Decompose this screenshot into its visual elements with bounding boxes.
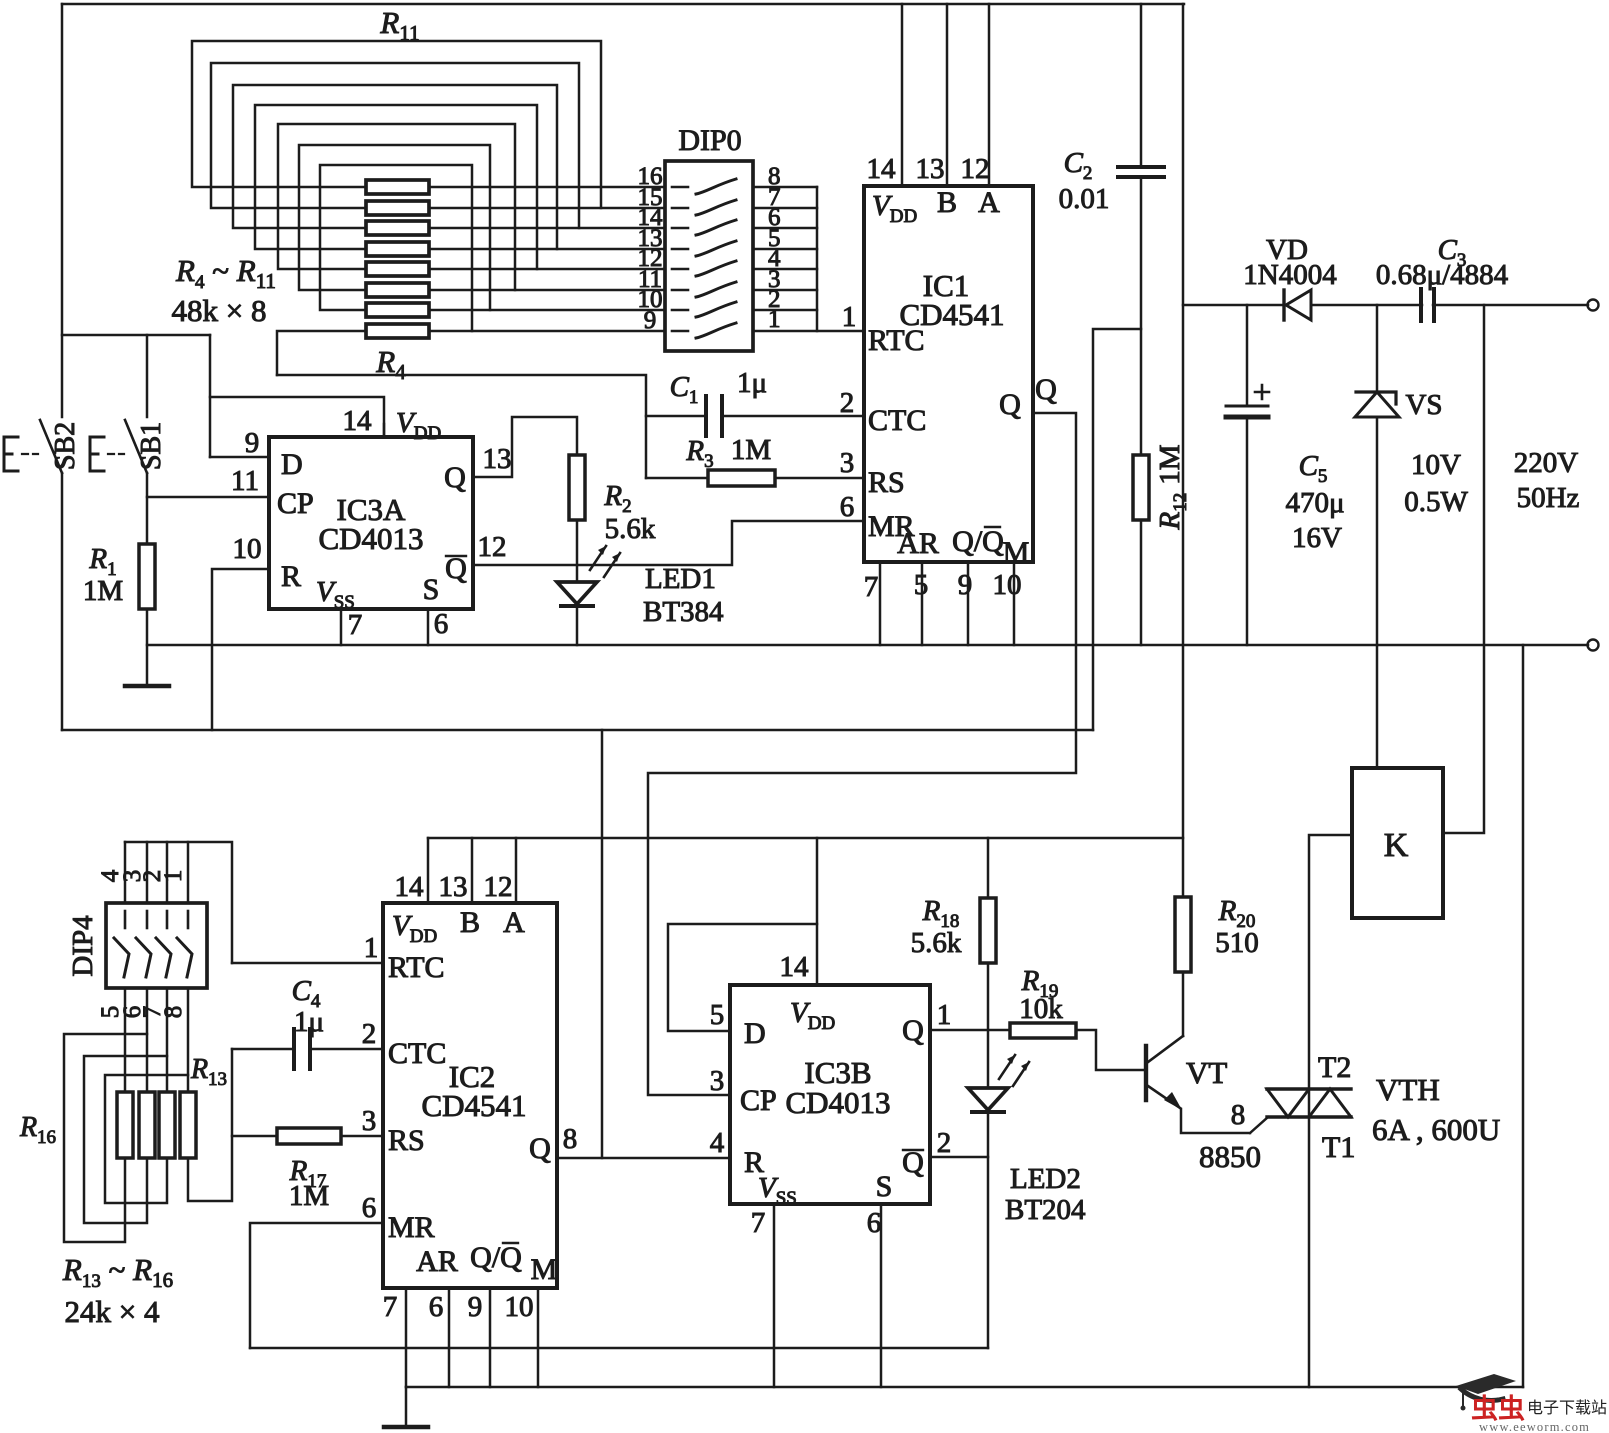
svg-text:7: 7 <box>864 571 879 603</box>
resistor R17 <box>277 1128 341 1144</box>
svg-text:VS: VS <box>1405 389 1442 421</box>
svg-text:8: 8 <box>563 1123 578 1155</box>
svg-text:1μ: 1μ <box>737 367 767 399</box>
svg-text:T1: T1 <box>1322 1131 1355 1164</box>
svg-text:8: 8 <box>160 1006 187 1019</box>
resistor R10 <box>366 201 429 215</box>
wire DIP0 pin 7 <box>753 207 817 210</box>
ground <box>125 684 169 689</box>
svg-text:RS: RS <box>388 1124 425 1157</box>
wire DIP0 right bus <box>816 187 819 331</box>
label C5 plus <box>1255 385 1269 399</box>
DIP switch DIP0 box <box>665 161 753 351</box>
wire R18 to LED2 <box>987 963 990 1088</box>
svg-text:R13 ~ R16: R13 ~ R16 <box>62 1252 173 1292</box>
wire top VDD rail <box>62 3 1184 6</box>
wire R2 to LED1 <box>576 520 579 582</box>
svg-text:13: 13 <box>439 871 468 903</box>
wire VSS rail <box>147 644 1588 647</box>
wire IC3B Qbar to LED2 <box>930 1156 988 1159</box>
svg-text:R4 ~ R11: R4 ~ R11 <box>175 253 276 293</box>
diode VD 1N4004 <box>1282 290 1285 320</box>
svg-text:T2: T2 <box>1318 1051 1351 1084</box>
svg-text:Q/Q: Q/Q <box>470 1241 522 1274</box>
wire R17 left <box>232 1135 277 1138</box>
svg-text:VDD: VDD <box>396 407 441 444</box>
svg-text:3: 3 <box>362 1105 377 1137</box>
wire R20 to VT collector <box>1182 972 1185 1036</box>
DIP4 switch 2 <box>146 911 149 928</box>
triac VTH <box>1267 1087 1351 1090</box>
LED LED1 <box>557 582 597 604</box>
svg-text:CD4541: CD4541 <box>899 297 1004 332</box>
wire left border (VDD feed to SB2/D net) <box>61 4 64 417</box>
resistor R16 <box>117 1092 133 1158</box>
wire bottom bus <box>406 1386 1523 1389</box>
svg-text:6: 6 <box>840 491 855 523</box>
svg-text:R3: R3 <box>685 435 713 472</box>
wire loop R15 bottom to pin7 <box>84 1056 167 1223</box>
watermark cap <box>1456 1374 1516 1411</box>
wire VDD to IC3A pin14 <box>210 397 384 437</box>
wire R18 top <box>987 838 990 898</box>
wire DIP0 pin 2 <box>753 309 817 312</box>
svg-text:220V: 220V <box>1514 447 1579 479</box>
svg-text:RS: RS <box>868 466 905 499</box>
wire loop R9 left terminal to DIP0 pin 13 <box>233 85 557 249</box>
svg-text:10V: 10V <box>1411 449 1461 481</box>
svg-text:C2: C2 <box>1064 147 1093 184</box>
pin IC1 5 stub <box>921 562 924 645</box>
wire IC2 RTC <box>232 962 383 965</box>
wire K right pin <box>1443 305 1484 833</box>
resistor R20 <box>1175 897 1191 972</box>
svg-text:10: 10 <box>233 533 262 565</box>
svg-text:1: 1 <box>842 301 857 333</box>
svg-text:CTC: CTC <box>868 404 926 437</box>
wire DIP0 pin 3 <box>753 289 817 292</box>
wire 220V top line <box>1183 304 1588 307</box>
LED1 arrows <box>590 546 620 577</box>
svg-text:6: 6 <box>429 1291 444 1323</box>
DIP0 switch 5 contact <box>672 268 688 271</box>
pin DIP4 top 4 <box>124 842 127 903</box>
svg-text:3: 3 <box>710 1065 725 1097</box>
svg-text:1: 1 <box>364 932 379 964</box>
svg-text:B: B <box>937 186 957 219</box>
svg-text:A: A <box>978 186 1000 219</box>
svg-text:R16: R16 <box>19 1112 56 1148</box>
pin IC2 10 stub <box>537 1288 540 1387</box>
svg-text:Q: Q <box>902 1014 924 1047</box>
svg-text:VDD: VDD <box>392 910 437 947</box>
wire SB1 top <box>146 335 149 417</box>
svg-text:2: 2 <box>937 1127 952 1159</box>
wire IC1 Q output <box>648 413 1076 1095</box>
svg-text:9: 9 <box>644 307 657 334</box>
wire LED2 bottom <box>987 1112 990 1348</box>
wire loop R8 left terminal to DIP0 pin 12 <box>255 105 537 269</box>
DIP0 switch 4 contact <box>672 248 688 251</box>
svg-text:B: B <box>460 906 480 939</box>
wire IC3A pin10 R <box>212 569 269 730</box>
svg-text:CD4541: CD4541 <box>421 1088 526 1123</box>
svg-text:10: 10 <box>993 569 1022 601</box>
svg-text:6A , 600U: 6A , 600U <box>1372 1112 1500 1147</box>
resistor R12 <box>1133 455 1149 520</box>
wire timing bus to C1/R3 <box>277 375 646 478</box>
svg-text:BT204: BT204 <box>1005 1194 1086 1226</box>
wire reset net to Q8 line <box>601 730 604 1158</box>
pin IC2 12 wire <box>515 838 518 903</box>
svg-text:DIP4: DIP4 <box>67 915 99 977</box>
op-amp IC3A CD4013 box <box>269 437 473 609</box>
wire C4 left <box>232 1048 294 1051</box>
wire lower VDD rail y838 <box>428 837 1183 840</box>
svg-text:470μ: 470μ <box>1285 487 1344 519</box>
pin DIP4 top 1 <box>187 842 190 903</box>
svg-text:0.01: 0.01 <box>1059 183 1110 215</box>
timer IC1 CD4541 box <box>864 186 1033 562</box>
svg-text:1N4004: 1N4004 <box>1243 259 1337 291</box>
pin IC2 14 wire <box>427 838 430 903</box>
wire K left pin to triac <box>1309 835 1352 1117</box>
resistor R18 <box>980 898 996 963</box>
pin DIP4 bottom 6 <box>146 988 149 1092</box>
wire SB1 to R1 and CP <box>146 473 149 544</box>
wire IC3B Q to R19 <box>930 1029 1010 1032</box>
pushbutton SB1 actuator <box>90 437 104 471</box>
svg-text:5: 5 <box>914 569 929 601</box>
pin DIP4 top 3 <box>146 842 149 903</box>
svg-text:1μ: 1μ <box>294 1006 324 1038</box>
pin DIP4 bottom 8 <box>187 988 190 1092</box>
svg-text:1M: 1M <box>289 1180 329 1212</box>
svg-text:8: 8 <box>1231 1099 1246 1131</box>
wire SB2 lower to reset line <box>61 473 64 730</box>
DIP4 switch 1 <box>124 911 127 928</box>
wire DIP4 top bus <box>125 842 232 963</box>
svg-text:R13: R13 <box>190 1054 227 1090</box>
svg-text:Q: Q <box>1035 373 1057 406</box>
svg-text:C5: C5 <box>1299 450 1328 487</box>
resistor R8 <box>366 242 429 256</box>
wire R11 right to DIP0 pin 16 <box>429 186 665 189</box>
svg-text:24k × 4: 24k × 4 <box>65 1294 160 1329</box>
wire R17 to IC2 RS <box>341 1135 383 1138</box>
svg-text:6: 6 <box>434 608 449 640</box>
svg-text:R121M: R121M <box>1154 444 1191 530</box>
svg-text:14: 14 <box>780 951 810 983</box>
pin IC3B 7 stub <box>773 1204 776 1387</box>
resistor R14 <box>159 1092 175 1158</box>
svg-text:AR: AR <box>897 527 939 560</box>
svg-text:14: 14 <box>395 871 425 903</box>
ground bottom <box>384 1425 428 1430</box>
wire IC3A Qbar to IC1 MR <box>473 521 862 565</box>
svg-text:13: 13 <box>483 443 512 475</box>
resistor R13 <box>180 1092 196 1158</box>
svg-text:电子下载站: 电子下载站 <box>1527 1399 1607 1417</box>
svg-text:VSS: VSS <box>316 576 355 613</box>
svg-text:7: 7 <box>751 1207 766 1239</box>
wire loop R5 left terminal to DIP0 pin 9 <box>320 165 472 331</box>
svg-text:Q/Q: Q/Q <box>952 525 1004 558</box>
svg-text:12: 12 <box>484 871 513 903</box>
svg-text:9: 9 <box>468 1291 483 1323</box>
svg-text:2: 2 <box>840 387 855 419</box>
wire IC2 MR <box>250 1223 383 1348</box>
capacitor C4 <box>294 1029 310 1069</box>
svg-text:5.6k: 5.6k <box>605 513 656 545</box>
capacitor C1 <box>706 396 722 436</box>
pin DIP4 bottom 5 <box>124 988 127 1092</box>
svg-text:8850: 8850 <box>1199 1139 1261 1174</box>
wire loop R11 left terminal to DIP0 pin 15 <box>192 41 601 208</box>
svg-text:0.5W: 0.5W <box>1404 486 1468 518</box>
DIP0 switch 1 contact <box>672 186 688 189</box>
svg-text:CP: CP <box>277 487 314 520</box>
svg-text:1M: 1M <box>731 434 771 466</box>
wire R3 left <box>646 477 708 480</box>
wire reset net y730 <box>62 729 1093 732</box>
wire R4 right to DIP0 pin 9 <box>429 330 665 333</box>
wire DIP0 pin1 to IC1 RTC <box>753 330 862 333</box>
wire ground stem IC2 <box>405 1387 408 1426</box>
resistor R15 <box>139 1092 155 1158</box>
wire IC3A pin9 D <box>210 456 269 459</box>
wire IC3A Q to R2 <box>473 417 577 477</box>
svg-text:CP: CP <box>740 1084 777 1117</box>
wire R4 left to timing bus <box>277 331 366 375</box>
svg-text:RTC: RTC <box>388 951 445 984</box>
wire right outer vertical <box>1522 645 1525 1387</box>
svg-text:10: 10 <box>505 1291 534 1323</box>
svg-text:CD4013: CD4013 <box>318 521 423 556</box>
svg-text:7: 7 <box>348 609 363 641</box>
svg-text:VTH: VTH <box>1376 1072 1440 1107</box>
svg-text:K: K <box>1384 827 1409 864</box>
wire reset-VSS line y1348 <box>250 1347 988 1350</box>
wire C2 top <box>1140 4 1143 167</box>
svg-text:M: M <box>531 1253 558 1286</box>
wire loop R16 bottom to pin6 <box>64 1034 147 1242</box>
svg-text:10k: 10k <box>1019 993 1063 1025</box>
pin IC3A 6 stub <box>427 609 430 645</box>
svg-text:50Hz: 50Hz <box>1517 482 1580 514</box>
svg-text:3: 3 <box>840 447 855 479</box>
svg-text:R: R <box>281 560 301 593</box>
wire C2 bottom to R12 <box>1140 177 1143 645</box>
svg-text:D: D <box>281 448 303 481</box>
svg-text:LED2: LED2 <box>1010 1163 1081 1195</box>
svg-text:9: 9 <box>958 569 973 601</box>
wire VT emitter to gate <box>1181 1109 1268 1133</box>
pin IC1 7 stub <box>879 562 882 645</box>
svg-text:SB2: SB2 <box>50 422 81 470</box>
svg-text:1M: 1M <box>83 575 123 607</box>
flip-flop IC3B CD4013 box <box>730 985 930 1204</box>
svg-text:www.eeworm.com: www.eeworm.com <box>1479 1420 1590 1433</box>
wire DIP0 pin 4 <box>753 268 817 271</box>
capacitor C3 <box>1421 289 1434 321</box>
wire C1 left <box>646 415 706 418</box>
svg-text:Q: Q <box>529 1132 551 1165</box>
wire IC3B D loop <box>668 924 817 1031</box>
DIP0 switch 6 contact <box>672 289 688 292</box>
wire loop R6 left terminal to DIP0 pin 10 <box>299 145 490 310</box>
svg-text:7: 7 <box>383 1291 398 1323</box>
svg-text:11: 11 <box>231 465 259 497</box>
svg-text:LED1: LED1 <box>645 563 716 595</box>
svg-text:VT: VT <box>1186 1055 1227 1090</box>
svg-text:C1: C1 <box>670 371 699 408</box>
wire DIP0 pin 8 <box>753 186 817 189</box>
svg-text:R2: R2 <box>603 480 631 517</box>
capacitor C5 electrolytic <box>1226 405 1268 408</box>
DIP0 switch 8 contact <box>672 330 688 333</box>
DIP4 switch 3 <box>166 911 169 928</box>
wire reset to C2 node <box>1093 329 1141 730</box>
svg-text:D: D <box>744 1017 766 1050</box>
pushbutton SB1 <box>125 420 147 473</box>
wire D net vertical <box>209 335 212 457</box>
wire R10 right to DIP0 pin 15 <box>429 207 665 210</box>
svg-text:SB1: SB1 <box>136 422 167 470</box>
pin IC3B 14 wire <box>816 838 819 985</box>
terminal 220V neutral <box>1588 640 1599 651</box>
pin IC2 13 wire <box>471 838 474 903</box>
LED LED2 <box>968 1088 1008 1110</box>
wire C5 branch <box>1246 305 1249 645</box>
wire K top pin <box>1376 645 1379 768</box>
svg-text:MR: MR <box>388 1211 435 1244</box>
pushbutton SB2 <box>40 420 62 473</box>
pin IC3B 6 stub <box>880 1204 883 1387</box>
wire R6 right to DIP0 pin 11 <box>429 289 665 292</box>
svg-text:BT384: BT384 <box>643 596 724 628</box>
wire DIP0 pin 6 <box>753 227 817 230</box>
svg-text:4: 4 <box>710 1127 725 1159</box>
wire IC1 pin13 to VDD rail <box>946 4 949 186</box>
wire IC2 Q to IC3B R <box>557 1157 730 1160</box>
svg-text:R4: R4 <box>375 344 406 384</box>
wire triac T1 down <box>1308 1117 1311 1387</box>
LED2 arrows <box>999 1055 1029 1086</box>
svg-text:1: 1 <box>160 870 187 883</box>
pin IC2 7 stub <box>405 1288 408 1387</box>
wire R9 right to DIP0 pin 14 <box>429 227 665 230</box>
wire VS branch top <box>1376 305 1379 392</box>
svg-text:12: 12 <box>961 153 990 185</box>
DIP0 switch 3 contact <box>672 227 688 230</box>
wire main DC+ vertical x1183 <box>1182 4 1185 897</box>
wire R3 to IC1 RS <box>775 477 862 480</box>
svg-text:5.6k: 5.6k <box>911 927 962 959</box>
pushbutton SB2 actuator <box>4 437 18 471</box>
transistor VT <box>1144 1046 1148 1100</box>
svg-text:CTC: CTC <box>388 1037 446 1070</box>
svg-text:VDD: VDD <box>872 190 917 227</box>
DIP4 switch 4 <box>187 911 190 928</box>
svg-text:R11: R11 <box>379 5 419 45</box>
DIP0 switch 7 contact <box>672 309 688 312</box>
wire DIP0 pin 5 <box>753 248 817 251</box>
wire R1 bottom <box>146 609 149 685</box>
pin DIP4 bottom 7 <box>166 988 169 1092</box>
svg-text:VSS: VSS <box>758 1172 797 1209</box>
wire LED1 to rail <box>576 604 579 645</box>
wire IC3A pin11 CP <box>147 496 269 499</box>
resistor R2 <box>569 455 585 520</box>
resistor R4 <box>366 324 429 338</box>
wire loop R10 left terminal to DIP0 pin 14 <box>211 63 579 228</box>
svg-text:48k × 8: 48k × 8 <box>172 293 267 328</box>
wire loop R7 left terminal to DIP0 pin 11 <box>278 124 515 290</box>
svg-text:Q: Q <box>444 461 466 494</box>
svg-text:AR: AR <box>416 1245 458 1278</box>
capacitor C2 <box>1118 167 1164 177</box>
node A wire y335 branch <box>62 334 210 337</box>
svg-text:M: M <box>1003 536 1030 569</box>
svg-text:6: 6 <box>362 1192 377 1224</box>
svg-text:Q: Q <box>999 388 1021 421</box>
wire IC1 pin14 to VDD rail <box>901 4 904 186</box>
resistor R11 <box>366 180 429 194</box>
zener diode VS <box>1356 392 1396 404</box>
timer IC2 CD4541 box <box>383 903 557 1288</box>
svg-text:0.68μ/4884: 0.68μ/4884 <box>1376 259 1509 291</box>
svg-text:1: 1 <box>768 306 781 333</box>
terminal 220V line <box>1588 300 1599 311</box>
resistor R19 <box>1010 1023 1076 1038</box>
pin DIP4 top 2 <box>166 842 169 903</box>
svg-text:DIP0: DIP0 <box>678 124 741 157</box>
pin IC2 9 stub <box>489 1288 492 1387</box>
svg-text:6: 6 <box>867 1207 882 1239</box>
svg-text:S: S <box>876 1170 893 1203</box>
wire VS branch bottom <box>1376 417 1379 645</box>
wire C4 to IC2 CTC <box>310 1048 383 1051</box>
relay K box <box>1352 768 1443 918</box>
svg-text:1: 1 <box>937 999 952 1031</box>
svg-text:VDD: VDD <box>790 997 835 1034</box>
pin IC3A 7 stub <box>340 609 343 645</box>
resistor R1 <box>139 544 155 609</box>
svg-text:510: 510 <box>1215 927 1259 959</box>
svg-text:2: 2 <box>362 1018 377 1050</box>
svg-text:16V: 16V <box>1292 522 1342 554</box>
svg-text:9: 9 <box>245 427 260 459</box>
svg-text:12: 12 <box>478 531 507 563</box>
wire R5 right to DIP0 pin 10 <box>429 309 665 312</box>
svg-text:14: 14 <box>343 405 373 437</box>
pin IC1 10 stub <box>1013 562 1016 645</box>
wire IC1 pin12 to VDD rail <box>988 4 991 186</box>
svg-text:5: 5 <box>710 999 725 1031</box>
resistor R5 <box>366 303 429 317</box>
pin IC3A 14 stub <box>383 424 386 437</box>
svg-text:A: A <box>503 906 525 939</box>
wire R7 right to DIP0 pin 12 <box>429 268 665 271</box>
wire loop R14 bottom to pin8 <box>105 1075 188 1203</box>
DIP0 switch 2 contact <box>672 207 688 210</box>
resistor R6 <box>366 283 429 297</box>
pin IC1 9 stub <box>967 562 970 645</box>
svg-text:14: 14 <box>867 153 897 185</box>
svg-text:S: S <box>423 573 440 606</box>
resistor R9 <box>366 221 429 235</box>
